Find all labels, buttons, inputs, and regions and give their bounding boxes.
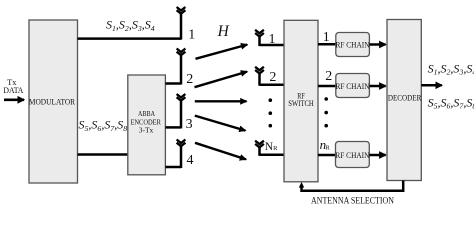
wire Tx input arrow [4, 99, 24, 102]
wire channel arrow 2 [195, 72, 248, 88]
svg-text:S5,S6,S7,S8: S5,S6,S7,S8 [428, 96, 474, 111]
wire chain3 to decoder [369, 154, 385, 157]
svg-text:1: 1 [269, 32, 276, 47]
block DECODER [387, 20, 421, 181]
block RF CHAIN 2 [336, 74, 370, 98]
svg-text:ABBA: ABBA [138, 110, 156, 118]
wire W4 encoder to TX antenna 3 [165, 126, 181, 129]
block RF CHAIN 1 [336, 33, 370, 57]
node dots switch out column [324, 97, 328, 127]
antenna TX4 [177, 140, 186, 169]
svg-text:SWITCH: SWITCH [288, 99, 313, 108]
block RF SWITCH [284, 20, 318, 182]
svg-text:1: 1 [188, 27, 195, 42]
wire channel arrow 4 [195, 116, 246, 131]
node dots RX column [269, 98, 273, 127]
wire channel arrow 5 [195, 143, 246, 160]
antenna RX2 [255, 67, 264, 86]
svg-text:RF CHAIN: RF CHAIN [336, 40, 370, 49]
antenna TX1 [177, 7, 186, 40]
wire chain2 to decoder [369, 85, 385, 88]
label Tx DATA [3, 78, 23, 95]
svg-text:1: 1 [323, 30, 330, 45]
svg-text:S1,S2,S3,S4: S1,S2,S3,S4 [428, 61, 474, 76]
antenna TX3 [177, 94, 186, 128]
wire RX2 feed [260, 83, 285, 86]
wire decoder output arrow [421, 84, 442, 87]
wire channel arrow 1 [196, 45, 248, 59]
svg-text:NR: NR [265, 141, 278, 153]
svg-text:3: 3 [186, 117, 193, 132]
svg-text:R: R [325, 144, 330, 151]
svg-text:S1,S2,S3,S4: S1,S2,S3,S4 [106, 18, 155, 33]
wire RXN feed [260, 154, 285, 157]
antenna RX1 [255, 30, 264, 46]
svg-text:2: 2 [186, 72, 193, 87]
block ABBA ENCODER 3-Tx [128, 75, 166, 175]
svg-text:DECODER: DECODER [388, 92, 422, 102]
wire RX1 feed [260, 44, 285, 47]
svg-text:2: 2 [325, 69, 332, 84]
wire W5 encoder to TX antenna 4 [165, 166, 181, 169]
svg-text:DATA: DATA [3, 86, 23, 95]
block MODULATOR [29, 20, 78, 183]
antenna TX2 [177, 49, 186, 85]
wire switch out 2 [318, 85, 336, 88]
svg-text:RF CHAIN: RF CHAIN [335, 151, 369, 160]
svg-text:ENCODER: ENCODER [130, 118, 161, 126]
svg-text:3-Tx: 3-Tx [139, 127, 154, 135]
svg-text:ANTENNA SELECTION: ANTENNA SELECTION [311, 196, 394, 206]
antenna RX NR [255, 141, 264, 156]
svg-text:4: 4 [187, 153, 194, 168]
wire feedback arrowhead into switch [299, 182, 304, 188]
wire W1 modulator to TX antenna 1 [78, 37, 182, 40]
svg-text:H: H [217, 23, 230, 40]
wire switch out 1 [318, 43, 336, 46]
wire W2 modulator to encoder [78, 153, 128, 156]
block RF CHAIN 3 [335, 142, 369, 168]
wire antenna selection feedback [302, 181, 404, 191]
wire channel arrow 3 [195, 100, 247, 102]
wire switch out nR [318, 154, 336, 157]
wire chain1 to decoder [369, 43, 385, 46]
svg-text:MODULATOR: MODULATOR [29, 97, 75, 107]
wire W3 encoder to TX antenna 2 [165, 82, 181, 85]
svg-text:RF CHAIN: RF CHAIN [336, 82, 370, 91]
svg-text:S5,S6,S7,S8: S5,S6,S7,S8 [79, 118, 128, 133]
svg-text:2: 2 [269, 70, 276, 85]
